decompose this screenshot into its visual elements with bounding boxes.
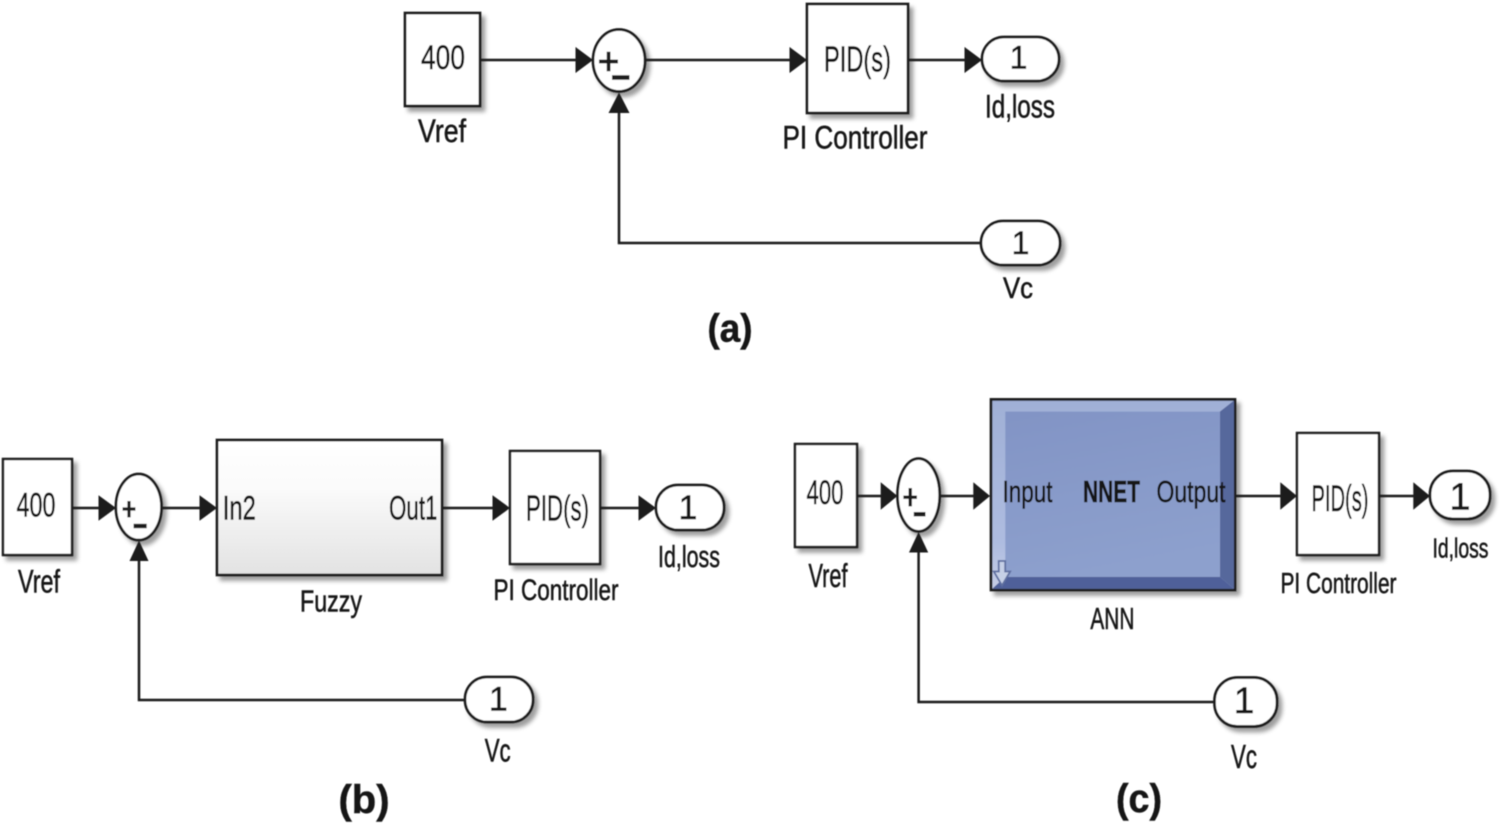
PI controller block PID(s) (b) [510,451,600,564]
svg-text:Id,loss: Id,loss [1433,532,1489,563]
constant block 400 (a) [405,13,480,106]
wire: sum to ANN (c) [940,482,990,510]
svg-text:Input: Input [1003,474,1053,509]
constant block 400 (c) [795,444,857,547]
svg-text:PI Controller: PI Controller [783,120,928,156]
svg-text:1: 1 [1012,225,1030,261]
svg-text:400: 400 [807,474,844,512]
svg-text:Output: Output [1157,474,1226,509]
svg-text:Id,loss: Id,loss [658,539,720,574]
svg-text:Vref: Vref [18,564,60,600]
wire: Vc feedback to sum (b) [130,541,466,701]
svg-text:PID(s): PID(s) [1312,478,1369,519]
svg-text:1: 1 [1010,40,1028,76]
Fuzzy subsystem block (b) [217,440,442,575]
wire: sum to PI controller (a) [645,47,807,73]
wire: Vc feedback to sum (a) [609,93,982,244]
outport 1 Id,loss (a) [982,37,1059,81]
svg-text:NNET: NNET [1083,474,1140,509]
svg-text:1: 1 [1449,477,1470,519]
outport 1 Id,loss (b) [656,485,724,530]
wire: 400 to sum (c) [857,482,897,510]
svg-text:Out1: Out1 [389,489,438,527]
svg-text:Vc: Vc [485,733,511,769]
wire: 400 to sum (a) [480,47,593,73]
PI controller block PID(s) (c) [1297,433,1379,555]
svg-text:PID(s): PID(s) [824,38,891,79]
svg-text:PID(s): PID(s) [526,488,589,529]
svg-text:PI Controller: PI Controller [1281,568,1397,600]
svg-text:Vc: Vc [1003,272,1033,305]
mask arrow (c) [994,561,1010,586]
svg-text:Vref: Vref [418,113,466,149]
wire: 400 to sum (b) [72,495,116,521]
wire: ANN to PI controller (c) [1236,482,1298,510]
PI controller block PID(s) (a) [807,4,908,113]
inport 1 Vc (a) [981,221,1060,265]
wire: Fuzzy to PI controller (b) [442,495,510,521]
svg-text:1: 1 [679,489,698,527]
svg-text:Vc: Vc [1231,738,1257,775]
wire: PI controller to outport (b) [600,495,656,521]
sum junction (c) [898,459,940,532]
ANN neural network block (c) [991,399,1235,590]
svg-text:400: 400 [421,39,465,77]
constant block 400 (b) [3,459,72,555]
sum junction (b) [116,474,162,540]
svg-text:(a): (a) [708,308,753,351]
wire: PI controller to outport (a) [908,47,982,73]
outport 1 Id,loss (c) [1430,471,1490,519]
inport 1 Vc (b) [465,677,533,722]
wire: sum to Fuzzy (b) [162,495,218,521]
svg-text:ANN: ANN [1090,601,1134,636]
svg-text:In2: In2 [223,489,256,527]
svg-text:1: 1 [489,681,508,719]
svg-text:Vref: Vref [809,557,849,594]
wire: PI controller to outport (c) [1379,482,1430,510]
svg-text:(c): (c) [1116,777,1162,821]
svg-text:1: 1 [1234,680,1255,721]
sum junction (a) [593,30,645,92]
svg-text:400: 400 [17,486,56,524]
svg-text:Id,loss: Id,loss [985,88,1055,124]
inport 1 Vc (c) [1215,678,1278,727]
wire: Vc feedback to sum (c) [909,532,1215,702]
svg-text:PI Controller: PI Controller [494,574,619,607]
svg-text:(b): (b) [339,778,390,822]
svg-text:Fuzzy: Fuzzy [300,584,362,619]
